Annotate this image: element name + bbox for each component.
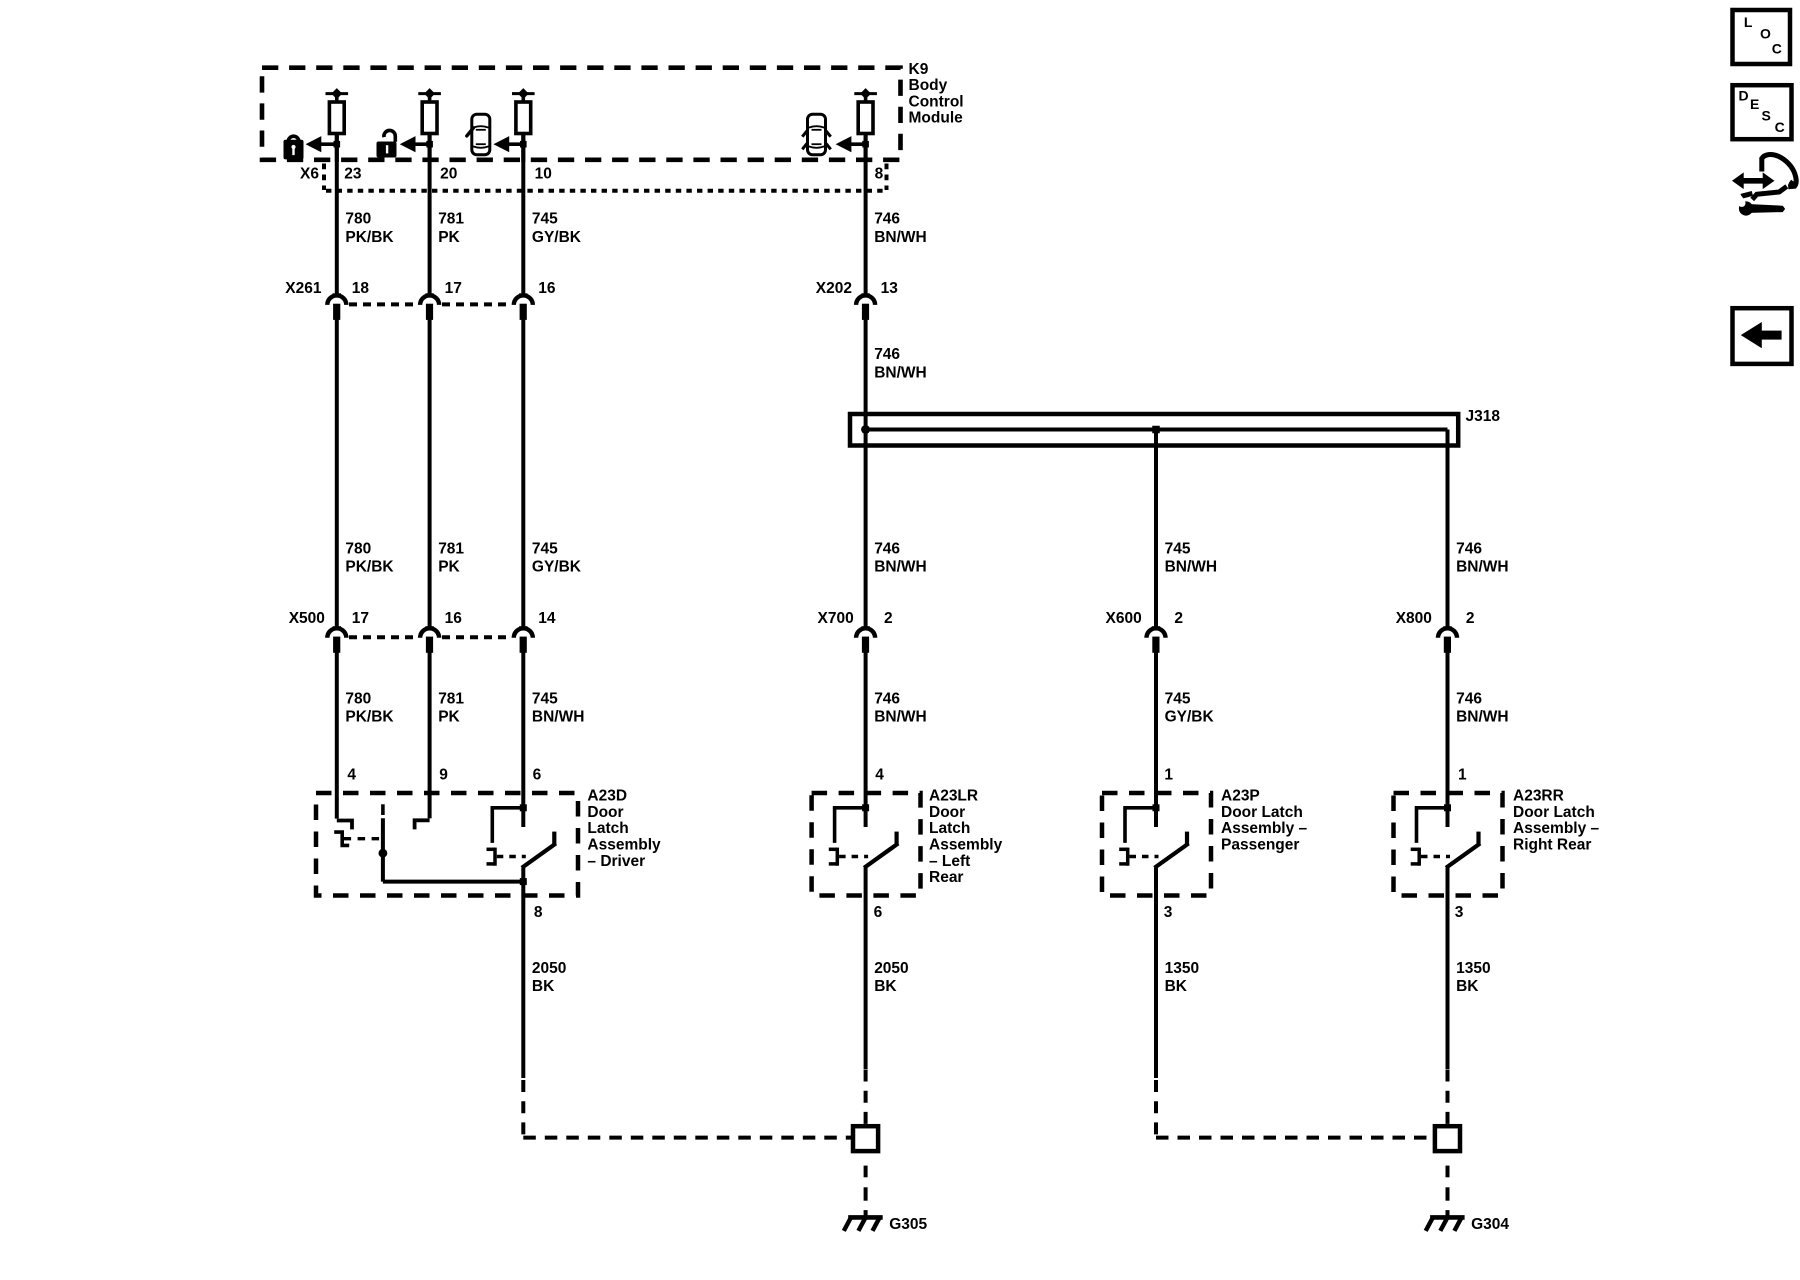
svg-text:745: 745: [1165, 690, 1191, 707]
svg-text:BK: BK: [1456, 978, 1479, 995]
svg-text:4: 4: [347, 766, 356, 783]
svg-text:PK: PK: [438, 709, 460, 726]
svg-text:2: 2: [1466, 610, 1475, 627]
svg-text:745: 745: [532, 540, 558, 557]
svg-text:E: E: [1750, 96, 1759, 112]
svg-text:746: 746: [874, 211, 900, 228]
svg-text:BN/WH: BN/WH: [874, 709, 927, 726]
svg-text:746: 746: [874, 540, 900, 557]
svg-text:PK: PK: [438, 559, 460, 576]
svg-text:Assembly –: Assembly –: [1513, 820, 1600, 837]
svg-text:17: 17: [352, 610, 369, 627]
svg-text:A23P: A23P: [1221, 788, 1260, 805]
svg-text:2050: 2050: [874, 960, 908, 977]
svg-text:X600: X600: [1105, 610, 1141, 627]
svg-text:13: 13: [881, 280, 899, 297]
svg-text:K9: K9: [909, 61, 929, 78]
svg-text:PK/BK: PK/BK: [345, 559, 394, 576]
svg-text:2050: 2050: [532, 960, 566, 977]
svg-text:Latch: Latch: [587, 820, 628, 837]
svg-text:10: 10: [535, 166, 552, 183]
svg-text:Rear: Rear: [929, 869, 963, 886]
svg-text:8: 8: [534, 904, 543, 921]
svg-text:X261: X261: [285, 280, 322, 297]
svg-text:A23RR: A23RR: [1513, 788, 1564, 805]
svg-text:G304: G304: [1471, 1216, 1509, 1233]
svg-text:– Left: – Left: [929, 853, 970, 870]
svg-text:8: 8: [875, 166, 884, 183]
svg-text:A23D: A23D: [587, 788, 627, 805]
svg-text:746: 746: [1456, 690, 1482, 707]
svg-text:781: 781: [438, 211, 464, 228]
svg-text:C: C: [1775, 119, 1785, 135]
svg-text:746: 746: [874, 690, 900, 707]
svg-text:781: 781: [438, 540, 464, 557]
svg-text:A23LR: A23LR: [929, 788, 978, 805]
svg-text:Assembly: Assembly: [929, 837, 1003, 854]
svg-text:Door: Door: [587, 804, 623, 821]
svg-text:745: 745: [532, 211, 558, 228]
svg-text:BN/WH: BN/WH: [874, 364, 927, 381]
svg-text:PK/BK: PK/BK: [345, 709, 394, 726]
svg-text:Passenger: Passenger: [1221, 837, 1299, 854]
svg-text:2: 2: [884, 610, 893, 627]
svg-text:BN/WH: BN/WH: [874, 229, 927, 246]
svg-text:BN/WH: BN/WH: [1456, 709, 1509, 726]
svg-text:Door: Door: [929, 804, 965, 821]
svg-text:6: 6: [533, 766, 542, 783]
svg-text:L: L: [1744, 14, 1753, 30]
svg-text:C: C: [1772, 41, 1782, 57]
svg-text:Module: Module: [909, 110, 964, 127]
svg-text:780: 780: [345, 690, 371, 707]
svg-text:780: 780: [345, 540, 371, 557]
svg-text:X500: X500: [289, 610, 325, 627]
svg-text:1: 1: [1458, 766, 1467, 783]
svg-text:745: 745: [1165, 540, 1191, 557]
svg-text:Assembly –: Assembly –: [1221, 820, 1308, 837]
svg-text:Body: Body: [909, 77, 948, 94]
svg-text:GY/BK: GY/BK: [532, 229, 582, 246]
svg-text:GY/BK: GY/BK: [1165, 709, 1215, 726]
svg-text:BN/WH: BN/WH: [1165, 559, 1218, 576]
svg-text:781: 781: [438, 690, 464, 707]
svg-text:J318: J318: [1466, 408, 1501, 425]
svg-text:G305: G305: [889, 1216, 927, 1233]
svg-text:BK: BK: [874, 978, 897, 995]
svg-text:1: 1: [1164, 766, 1173, 783]
svg-text:BN/WH: BN/WH: [874, 559, 927, 576]
svg-text:6: 6: [874, 904, 883, 921]
svg-text:1350: 1350: [1165, 960, 1199, 977]
svg-text:PK/BK: PK/BK: [345, 229, 394, 246]
svg-text:BN/WH: BN/WH: [532, 709, 585, 726]
svg-text:X6: X6: [300, 166, 319, 183]
svg-text:Right Rear: Right Rear: [1513, 837, 1591, 854]
svg-text:BN/WH: BN/WH: [1456, 559, 1509, 576]
svg-text:2: 2: [1174, 610, 1183, 627]
svg-text:GY/BK: GY/BK: [532, 559, 582, 576]
svg-text:S: S: [1762, 107, 1771, 123]
svg-text:– Driver: – Driver: [587, 853, 645, 870]
svg-text:14: 14: [538, 610, 556, 627]
svg-text:BK: BK: [1165, 978, 1188, 995]
svg-text:Door Latch: Door Latch: [1221, 804, 1303, 821]
svg-text:20: 20: [440, 166, 457, 183]
svg-text:O: O: [1760, 26, 1771, 42]
svg-text:9: 9: [439, 766, 448, 783]
svg-text:745: 745: [532, 690, 558, 707]
svg-text:X202: X202: [816, 280, 852, 297]
svg-text:PK: PK: [438, 229, 460, 246]
svg-text:16: 16: [445, 610, 463, 627]
svg-text:X800: X800: [1396, 610, 1432, 627]
svg-text:17: 17: [445, 280, 462, 297]
svg-text:Door Latch: Door Latch: [1513, 804, 1595, 821]
svg-text:1350: 1350: [1456, 960, 1490, 977]
svg-text:746: 746: [1456, 540, 1482, 557]
svg-text:3: 3: [1164, 904, 1173, 921]
svg-text:23: 23: [344, 166, 362, 183]
svg-text:Assembly: Assembly: [587, 837, 661, 854]
svg-text:BK: BK: [532, 978, 555, 995]
svg-text:Control: Control: [909, 93, 964, 110]
svg-text:746: 746: [874, 346, 900, 363]
svg-text:Latch: Latch: [929, 820, 970, 837]
svg-text:18: 18: [352, 280, 370, 297]
svg-text:D: D: [1739, 88, 1749, 104]
svg-text:4: 4: [875, 766, 884, 783]
svg-text:3: 3: [1455, 904, 1464, 921]
svg-text:X700: X700: [817, 610, 853, 627]
svg-text:16: 16: [538, 280, 556, 297]
svg-text:780: 780: [345, 211, 371, 228]
